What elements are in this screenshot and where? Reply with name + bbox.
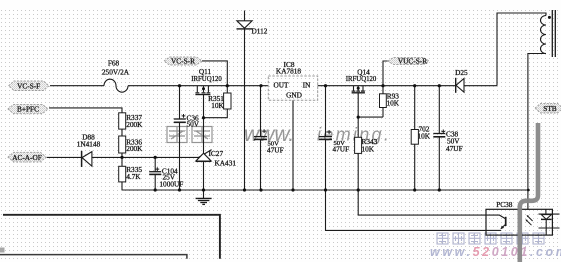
svg-text:KA431: KA431	[215, 158, 237, 167]
svg-text:F68: F68	[108, 59, 120, 68]
svg-text:10K: 10K	[362, 144, 375, 153]
svg-text:10K: 10K	[387, 98, 400, 107]
svg-text:OUT: OUT	[274, 80, 290, 89]
svg-text:VUC-S-R: VUC-S-R	[398, 56, 427, 65]
svg-text:47UF: 47UF	[446, 144, 463, 153]
svg-text:1N4148: 1N4148	[77, 139, 101, 148]
svg-text:STB: STB	[543, 104, 557, 113]
svg-text:B+PFC: B+PFC	[17, 105, 39, 114]
svg-text:AC-A-OF: AC-A-OF	[12, 153, 42, 162]
svg-text:Q11: Q11	[199, 67, 212, 76]
svg-text:1000UF: 1000UF	[159, 179, 183, 188]
svg-text:47UF: 47UF	[333, 145, 350, 154]
svg-text:GND: GND	[286, 91, 302, 100]
svg-text:250V/2A: 250V/2A	[102, 68, 130, 77]
svg-text:200K: 200K	[126, 144, 143, 153]
svg-text:IRFUQ120: IRFUQ120	[191, 76, 222, 83]
svg-text:D112: D112	[252, 26, 268, 35]
svg-text:10K: 10K	[418, 132, 431, 141]
svg-text:D25: D25	[455, 68, 468, 77]
svg-text:KA7818: KA7818	[276, 67, 301, 76]
svg-text:VC-S-F: VC-S-F	[17, 82, 40, 91]
svg-text:IRFUQ120: IRFUQ120	[346, 76, 377, 83]
svg-text:IN: IN	[303, 80, 311, 89]
svg-text:50V: 50V	[187, 120, 200, 129]
svg-text:ieming.: ieming.	[317, 125, 391, 145]
svg-text:PC38: PC38	[496, 200, 513, 209]
svg-text:200K: 200K	[126, 120, 143, 129]
svg-text:VC-S-R: VC-S-R	[171, 57, 195, 66]
svg-text:IC27: IC27	[209, 149, 224, 158]
svg-text:4.7K: 4.7K	[126, 172, 141, 181]
svg-text:www.520101.com: www.520101.com	[430, 245, 561, 259]
svg-text:10K: 10K	[211, 101, 224, 110]
svg-text:47UF: 47UF	[267, 145, 284, 154]
